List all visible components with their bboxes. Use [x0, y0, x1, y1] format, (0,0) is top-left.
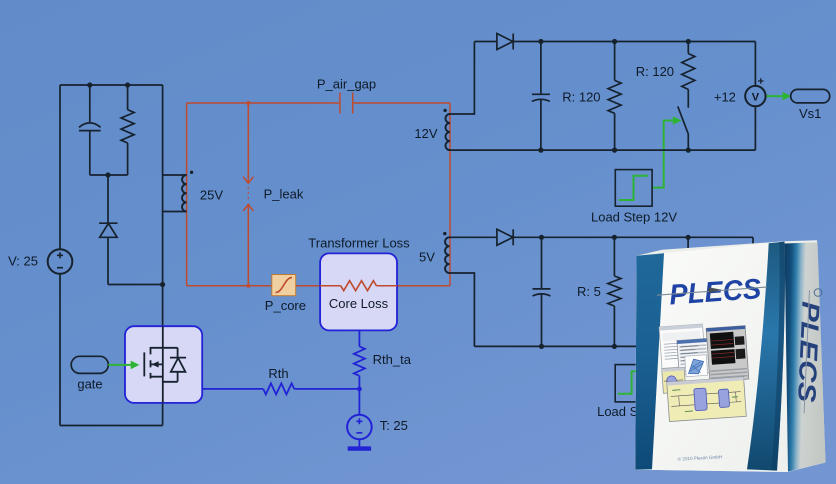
inductor 5V winding	[445, 237, 449, 273]
wire: 5V bottom rail	[474, 345, 756, 347]
source V: 25	[48, 249, 73, 274]
wire: Core Loss down	[358, 330, 360, 346]
wire: node to T source	[358, 376, 360, 415]
wire: Load Step 12V to switch	[652, 121, 673, 188]
svg-text:25V: 25V	[200, 188, 223, 203]
wire: 5V right corner stub	[752, 237, 754, 248]
wire: input left vertical lower	[59, 274, 61, 426]
svg-text:P_core: P_core	[265, 298, 306, 313]
resistor Rth	[263, 383, 294, 394]
svg-text:V: V	[752, 92, 760, 104]
resistor R: 5	[608, 237, 621, 346]
arrowhead switch 12V	[673, 116, 682, 125]
svg-text:P_leak: P_leak	[264, 187, 304, 202]
wire: 5V switch branch stub	[687, 237, 689, 253]
capacitor 12V	[532, 42, 550, 151]
PLECS product box	[635, 240, 825, 472]
signal: step waveform 12V	[619, 176, 648, 200]
resistor R: 120	[608, 42, 621, 151]
diode clamp	[99, 175, 117, 285]
wire: blue thermal from MOSFET to Rth	[202, 388, 263, 390]
source T: 25	[347, 415, 372, 440]
node: blue junction	[357, 387, 362, 392]
wire: input left vertical upper	[59, 85, 61, 249]
svg-text:12V: 12V	[414, 126, 437, 141]
inductor 12V winding	[445, 114, 450, 150]
port gate	[71, 356, 108, 373]
block Load Step 5V	[615, 365, 652, 402]
svg-text:PLECS: PLECS	[668, 273, 762, 311]
transistor MOSFET with diode	[125, 326, 202, 403]
wire: magnetic bottom rail	[187, 285, 450, 287]
wire: drain vertical	[162, 85, 164, 326]
flux probe P_leak arrows	[243, 177, 253, 211]
wire: snubber bottom join	[90, 174, 128, 176]
signal: step waveform 5V	[618, 371, 650, 393]
svg-text:Vs1: Vs1	[799, 106, 821, 121]
capacitor snubber	[79, 85, 101, 175]
svg-text:R: 5: R: 5	[577, 284, 601, 299]
svg-text:+12: +12	[714, 89, 736, 104]
wire: source vertical to bottom rail	[162, 403, 164, 426]
ground (thermal)	[348, 446, 371, 450]
capacitor 5V	[533, 237, 551, 346]
wire: 12V bottom rail	[450, 149, 755, 151]
wire: input bottom rail	[60, 425, 163, 427]
block Core Loss (Transformer Loss)	[320, 253, 397, 330]
svg-text:Rth_ta: Rth_ta	[373, 352, 412, 367]
arrowhead gate	[131, 361, 140, 370]
wire: gate signal	[108, 364, 131, 366]
arrowhead Vs1	[783, 92, 792, 101]
svg-text:Rth: Rth	[268, 366, 288, 381]
wire: primary terminals	[163, 175, 187, 212]
wire: 12V top terminal	[450, 42, 474, 115]
wire: voltmeter to Vs1	[766, 95, 783, 97]
wire: magnetic top rail	[187, 102, 450, 104]
inductor primary winding 25V	[182, 175, 187, 212]
svg-text:R: 120: R: 120	[562, 89, 600, 104]
svg-text:5V: 5V	[419, 249, 435, 264]
voltmeter Vm1	[745, 86, 765, 106]
wire: T source to ground	[358, 439, 360, 446]
svg-text:V: 25: V: 25	[8, 254, 38, 269]
wire: clamp to drain line	[108, 284, 163, 286]
svg-text:R: 120: R: 120	[636, 64, 674, 79]
diode 5V	[497, 229, 513, 245]
wire: magnetic right vertical	[449, 103, 451, 286]
svg-text:Load Step 12V: Load Step 12V	[591, 210, 677, 225]
node: red junction dots	[246, 101, 250, 105]
resistor R: 120 (switch branch)	[682, 42, 695, 108]
wire: 12V top rail	[474, 41, 755, 43]
capacitor P_air_gap	[340, 93, 353, 114]
wire: Rth to node	[294, 388, 359, 390]
svg-text:gate: gate	[77, 377, 102, 392]
port Vs1	[791, 89, 830, 103]
svg-text:P_air_gap: P_air_gap	[317, 77, 376, 92]
node P_leak branch wire	[247, 103, 249, 286]
resistor snubber	[121, 85, 134, 175]
wire: 5V bottom terminal	[450, 273, 475, 346]
block Load Step 12V	[615, 170, 652, 207]
saturable core P_core	[272, 275, 296, 296]
svg-text:Core Loss: Core Loss	[329, 296, 389, 311]
wire: 5V top rail	[450, 236, 754, 238]
wire: magnetic core left vertical	[186, 103, 188, 286]
svg-text:Transformer Loss: Transformer Loss	[308, 236, 410, 251]
resistor Rth_ta	[354, 346, 365, 375]
diode 12V	[497, 34, 513, 50]
node junction dots	[87, 39, 691, 349]
switch 12V load	[678, 106, 689, 150]
svg-text:T: 25: T: 25	[380, 418, 408, 433]
wire: voltmeter branch	[754, 42, 756, 151]
wire: input top rail	[60, 84, 163, 86]
